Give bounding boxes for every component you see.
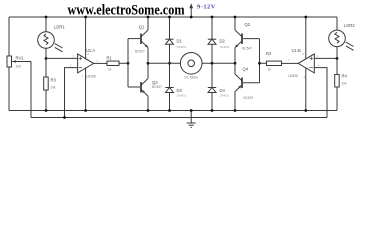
dot ground rail <box>190 109 193 112</box>
svg-text:LM358: LM358 <box>288 74 298 78</box>
potentiometer RV1 <box>7 56 31 118</box>
svg-text:1N4001: 1N4001 <box>177 93 187 97</box>
svg-text:1N4001: 1N4001 <box>220 45 230 49</box>
motor M1 DC Motor <box>148 53 235 75</box>
wire top rail <box>9 16 337 18</box>
diode D4 <box>208 63 216 110</box>
dot LDR1 top rail <box>45 16 48 19</box>
dot D3 ground <box>168 109 171 112</box>
dot U1:A pin4 ground <box>84 109 87 112</box>
LDR LDR2 <box>329 17 354 59</box>
node R1 output to bases <box>127 62 130 65</box>
svg-text:www.electroSome.com: www.electroSome.com <box>68 3 185 19</box>
plus sign U1:A <box>79 57 82 68</box>
power supply arrow 9-12V <box>189 3 193 17</box>
dot Q2 collector rail <box>234 16 237 19</box>
dot U1:B pin4 ground <box>304 109 307 112</box>
svg-text:D2: D2 <box>220 39 226 44</box>
dot D1 node <box>168 62 171 65</box>
svg-text:BC547: BC547 <box>135 50 145 54</box>
resistor R3 <box>44 59 49 111</box>
transistor Q4 <box>235 63 242 110</box>
dot D1 rail <box>168 16 171 19</box>
diode D1 <box>165 17 173 63</box>
node R2 to bases <box>258 62 261 65</box>
svg-text:10K: 10K <box>16 65 23 69</box>
svg-text:BC557: BC557 <box>152 85 162 89</box>
svg-text:D4: D4 <box>220 88 226 93</box>
svg-text:U1:B: U1:B <box>292 48 302 53</box>
svg-text:8: 8 <box>302 52 304 56</box>
resistor R1 <box>94 61 128 65</box>
svg-text:5: 5 <box>317 54 319 58</box>
node LDR2/R4 junction <box>336 57 339 60</box>
dot Q3 emitter ground <box>147 109 150 112</box>
dot U1:A inv input on rail B <box>63 116 66 119</box>
svg-text:LDR2: LDR2 <box>344 23 355 28</box>
svg-text:R3: R3 <box>51 78 57 83</box>
node bridge right <box>234 62 237 65</box>
dot D2 node <box>211 62 214 65</box>
diode D2 <box>208 17 216 63</box>
dot Q4 emitter ground <box>234 109 237 112</box>
dot U1:B pin8 rail <box>304 16 307 19</box>
svg-text:D1: D1 <box>177 39 183 44</box>
dot Q1 collector rail <box>147 16 150 19</box>
dot R3 ground <box>45 109 48 112</box>
svg-text:R1: R1 <box>107 56 113 61</box>
svg-text:4: 4 <box>304 75 306 79</box>
node LDR1/R3 junction <box>45 57 48 60</box>
node bridge left <box>147 62 150 65</box>
svg-text:BC547: BC547 <box>242 46 252 50</box>
dot D2 rail <box>211 16 214 19</box>
plus sign U1:B <box>310 57 313 68</box>
transistor Q1 <box>141 17 148 63</box>
svg-text:10k: 10k <box>342 82 348 86</box>
svg-text:10k: 10k <box>51 86 57 90</box>
svg-text:LM358: LM358 <box>86 74 96 78</box>
resistor R4 <box>335 59 340 111</box>
transistor Q2 <box>235 17 242 63</box>
svg-text:9-12V: 9-12V <box>197 4 216 11</box>
resistor R2 <box>260 61 299 65</box>
svg-text:1N4001: 1N4001 <box>220 93 230 97</box>
svg-text:6: 6 <box>318 64 320 68</box>
svg-text:DC Motor: DC Motor <box>184 76 199 80</box>
transistor Q3 <box>141 63 148 110</box>
svg-text:4: 4 <box>82 74 84 78</box>
LDR LDR1 <box>38 17 63 59</box>
svg-text:BC557: BC557 <box>244 96 254 100</box>
svg-text:Q4: Q4 <box>243 67 249 72</box>
wire base column right <box>259 39 261 83</box>
diode D3 <box>165 63 173 110</box>
ground symbol <box>187 111 196 128</box>
wire reference rail B (RV1 wiper to op-amp inverting inputs) <box>31 117 327 119</box>
svg-text:1N4001: 1N4001 <box>177 45 187 49</box>
svg-text:R4: R4 <box>342 74 348 79</box>
dot D4 ground <box>211 109 214 112</box>
svg-text:1k: 1k <box>108 68 112 72</box>
svg-text:1: 1 <box>97 59 99 63</box>
op-amp U1:A <box>46 17 94 118</box>
wire base column left <box>127 39 129 87</box>
svg-text:1k: 1k <box>268 68 272 72</box>
dot U1:A pin8 rail <box>84 16 87 19</box>
svg-text:7: 7 <box>288 58 290 62</box>
svg-text:3: 3 <box>73 54 75 58</box>
wire bottom ground rail <box>9 110 337 112</box>
wire left border with RV1 in series <box>8 17 10 56</box>
svg-text:D3: D3 <box>177 88 183 93</box>
op-amp U1:B <box>298 17 337 118</box>
svg-text:Q1: Q1 <box>139 25 145 30</box>
svg-text:Q2: Q2 <box>245 22 251 27</box>
dot supply rail <box>190 16 193 19</box>
svg-text:LDR1: LDR1 <box>54 25 65 30</box>
svg-text:RV1: RV1 <box>16 56 25 61</box>
svg-text:R2: R2 <box>266 51 272 56</box>
svg-text:2: 2 <box>70 64 72 68</box>
